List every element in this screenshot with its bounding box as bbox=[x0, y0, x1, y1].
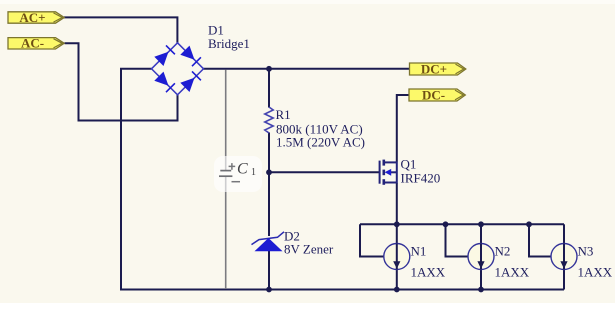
wire R1 bottom to zener top bbox=[268, 133, 270, 237]
zener D2 triangle bbox=[255, 238, 283, 251]
svg-text:N1: N1 bbox=[411, 244, 427, 259]
junction N1 bottom rail bbox=[394, 287, 400, 293]
wire AC+ from port to bridge top bbox=[64, 17, 177, 42]
lamp N2 bbox=[468, 244, 494, 270]
wire N3 left loop bbox=[529, 224, 552, 256]
wire DC+ rail: bridge right vertex to DC+ port bbox=[204, 68, 411, 70]
wire DC- port to Q1 drain bbox=[397, 95, 409, 162]
wire gate from R1 junction to Q1 bbox=[269, 171, 379, 173]
bridge diode top-left (L->T) bbox=[154, 52, 168, 66]
svg-text:Bridge1: Bridge1 bbox=[208, 36, 250, 51]
junction N1 top rail bbox=[394, 221, 400, 227]
port DC+ bbox=[410, 61, 466, 76]
wire R1 branch top bbox=[268, 69, 270, 108]
capacitor C1 plates bbox=[220, 170, 231, 172]
bridge diode top-right (T->R) bbox=[180, 46, 194, 60]
junction R1 top on DC+ rail bbox=[266, 66, 272, 72]
wire lamp top rail bbox=[360, 223, 564, 225]
wire zener bottom to rail bbox=[268, 251, 270, 290]
wire AC- from port down and to bridge bottom bbox=[65, 43, 178, 120]
port AC- bbox=[8, 36, 64, 51]
port AC+ bbox=[8, 10, 64, 25]
svg-text:1AXX: 1AXX bbox=[411, 265, 446, 280]
svg-text:R1: R1 bbox=[276, 107, 291, 122]
bridge diode bottom-left (L->B) bbox=[154, 72, 168, 86]
wire N3 vertical bbox=[563, 224, 565, 289]
mosfet Q1 arrow bbox=[385, 169, 392, 176]
port DC- bbox=[409, 87, 465, 102]
junction zener bottom on rail bbox=[266, 287, 272, 293]
svg-text:AC+: AC+ bbox=[19, 10, 45, 25]
capacitor C1 grey branch bottom bbox=[225, 176, 227, 289]
bridge D1 diamond bbox=[152, 43, 204, 95]
lamp N1 bbox=[384, 244, 410, 270]
svg-text:8V Zener: 8V Zener bbox=[284, 242, 334, 257]
svg-text:DC-: DC- bbox=[422, 87, 445, 102]
bridge diode bottom-right (B->R) bbox=[180, 78, 194, 92]
wire Q1 source down through N1 to bottom rail bbox=[396, 183, 398, 290]
wire DC- rail: bridge left vertex, left side down, bottom rail bbox=[121, 69, 564, 290]
svg-text:N3: N3 bbox=[578, 244, 594, 259]
junction N2 top rail bbox=[478, 221, 484, 227]
junction N2 bottom rail bbox=[478, 287, 484, 293]
svg-text:1AXX: 1AXX bbox=[495, 265, 530, 280]
junction N2 loop top rail bbox=[443, 221, 449, 227]
junction N3 loop top rail bbox=[526, 221, 532, 227]
svg-text:Q1: Q1 bbox=[401, 157, 417, 172]
capacitor C1 white halo bbox=[214, 156, 262, 192]
wire N1 left loop bbox=[360, 224, 385, 256]
junction gate node at R1 bottom bbox=[266, 169, 272, 175]
capacitor C1 minus sign bbox=[232, 181, 241, 183]
svg-text:IRF420: IRF420 bbox=[401, 171, 441, 186]
zener D2 bar bbox=[252, 232, 285, 245]
capacitor C1 plus sign bbox=[229, 163, 236, 170]
lamp N3 bbox=[551, 244, 577, 270]
svg-text:AC-: AC- bbox=[21, 36, 44, 51]
svg-text:1AXX: 1AXX bbox=[578, 265, 613, 280]
svg-text:1.5M (220V AC): 1.5M (220V AC) bbox=[276, 135, 365, 150]
resistor R1 bbox=[265, 107, 273, 133]
svg-text:DC+: DC+ bbox=[421, 61, 447, 76]
mosfet Q1 bbox=[380, 160, 397, 185]
capacitor C1 grey branch top bbox=[225, 70, 227, 171]
svg-text:C: C bbox=[237, 161, 248, 178]
wire N2 left loop bbox=[446, 224, 469, 256]
wire N2 vertical bbox=[480, 224, 482, 289]
svg-text:1: 1 bbox=[251, 167, 256, 178]
svg-text:N2: N2 bbox=[495, 244, 511, 259]
